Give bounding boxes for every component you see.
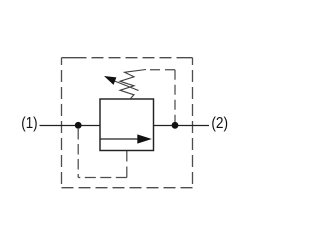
main flow line port (1) to port (2): [40, 125, 210, 127]
pilot sense line: node A down, across, up to valve bottom: [78, 129, 127, 178]
junction dot node B: [172, 122, 179, 129]
svg-text:(1): (1): [21, 115, 37, 132]
spring (zigzag) with connector to pilot: [120, 70, 146, 100]
pilot line: spring cavity to node B: [146, 70, 175, 123]
enclosure (dashed component boundary box): [62, 58, 193, 188]
svg-text:(2): (2): [211, 115, 228, 132]
adjustment arrow across spring: [104, 76, 139, 91]
junction dot node A: [75, 122, 82, 129]
valve body (square envelope): [100, 99, 154, 151]
flow path arrow inside valve: [101, 134, 152, 143]
